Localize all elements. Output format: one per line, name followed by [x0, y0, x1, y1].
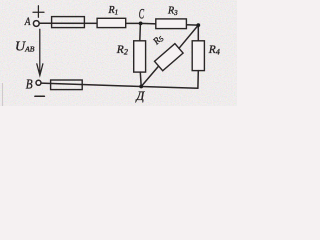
resistor R1: [97, 18, 126, 27]
node D: [139, 85, 143, 89]
wire D to R5: [141, 66, 158, 86]
wire TR to R4: [197, 25, 199, 41]
wire C to R2: [139, 23, 142, 40]
resistor R2: [134, 41, 146, 72]
wire top A-C-TR: [39, 23, 198, 25]
scan edge streak: [2, 83, 4, 106]
plus sign: [33, 6, 44, 18]
wire bottom B-D-corner: [41, 83, 198, 88]
terminal B: [36, 80, 41, 85]
wire R5 to TR: [179, 25, 198, 48]
svg-text:Д: Д: [135, 89, 145, 103]
wire R4 to bottom corner: [197, 71, 199, 89]
wire R2 to D: [139, 72, 142, 86]
fuse F2: [51, 80, 83, 90]
svg-text:C: C: [139, 6, 144, 22]
resistor R5: [155, 44, 184, 71]
resistor R4: [192, 41, 204, 71]
svg-text:A: A: [24, 15, 31, 28]
svg-text:B: B: [26, 77, 33, 92]
arrow UAB: [37, 29, 43, 75]
fuse F1: [52, 17, 85, 28]
node C: [139, 22, 143, 26]
node TR: [196, 23, 200, 27]
scan noise: [0, 0, 237, 106]
resistor R3: [156, 19, 187, 29]
terminal A: [33, 21, 39, 27]
minus sign: [35, 95, 45, 97]
